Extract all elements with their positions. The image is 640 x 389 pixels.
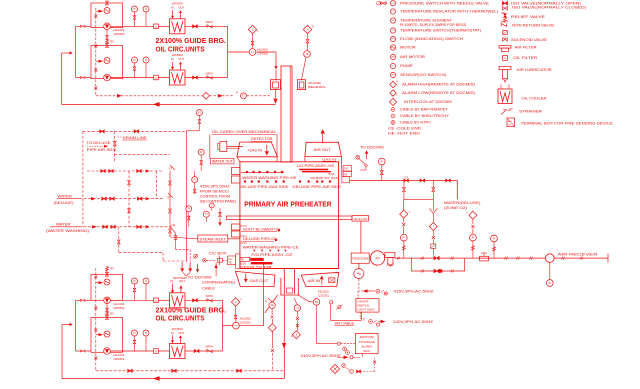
pump P-A [104, 23, 111, 30]
compensating cable line [215, 262, 217, 276]
wires to TS TI from pedestal [268, 298, 272, 302]
svg-text:OIL FILTER: OIL FILTER [513, 56, 538, 60]
PI instrument x199 upper [196, 110, 202, 116]
svg-text:PI: PI [188, 208, 191, 211]
svg-text:AIR RECEVER: AIR RECEVER [558, 251, 598, 256]
wire [158, 299, 169, 301]
svg-text:PRESSURE SWITCH WITH NEEDLE VA: PRESSURE SWITCH WITH NEEDLE VALVE [400, 1, 490, 5]
legend TEMPERATURE INDICATOR WITH THERMOWELL [390, 9, 395, 14]
cable from vessel circle [330, 301, 333, 304]
svg-text:WATER(DELUGE): WATER(DELUGE) [444, 201, 481, 205]
pump P-C [104, 297, 111, 304]
svg-text:CF008 TO 016: CF008 TO 016 [310, 176, 338, 180]
svg-text:F/G PIPE ASSY.-CE: F/G PIPE ASSY.-CE [251, 253, 293, 257]
air in aux box [329, 278, 335, 283]
PI instrument x188.8 [186, 206, 192, 212]
wire: discharge header lower [222, 300, 224, 351]
legend AIR MOTOR [390, 54, 395, 59]
preheater chimney column [281, 66, 292, 162]
svg-text:TI: TI [145, 332, 147, 335]
air header pipe [350, 180, 458, 182]
pressure indicator PI-B [132, 57, 138, 63]
non-return valve NRV-B [207, 76, 212, 79]
valves row1 [100, 130, 105, 133]
wire steam inlet to vessel [228, 238, 240, 240]
svg-text:ALARM HIGH(REMOTE AT DDCMIS): ALARM HIGH(REMOTE AT DDCMIS) [402, 83, 475, 87]
alarm diamond below TI [296, 324, 299, 327]
pipe after receiver [554, 257, 608, 259]
legend alarm high [390, 81, 396, 87]
svg-text:CABLE BY BAP-RANIPET: CABLE BY BAP-RANIPET [400, 108, 448, 112]
legend FLOW (INDICATING) SWITCH [390, 36, 395, 41]
oil filter F-A [154, 24, 159, 29]
pump P-B [104, 74, 111, 81]
svg-text:FLOW (INDICATING) SWITCH: FLOW (INDICATING) SWITCH [400, 37, 464, 41]
pipe valves right [505, 257, 506, 260]
alarm low diamond 2 [235, 307, 237, 316]
funnel vent [432, 199, 434, 211]
svg-text:OIL COOLER: OIL COOLER [522, 97, 548, 101]
TI bottom [294, 305, 300, 311]
return feed arrow upper [70, 51, 73, 54]
air out arrow [321, 129, 325, 133]
svg-text:CE -COLD END: CE -COLD END [388, 127, 422, 131]
svg-text:(WATER WASHING): (WATER WASHING) [46, 229, 89, 233]
dashed standby vertical lower [95, 268, 97, 371]
legend oil filter [503, 56, 508, 61]
air lubricator [385, 252, 395, 257]
dashed left main riser [82, 131, 84, 227]
RV between C and D [106, 300, 108, 317]
internal row lines [240, 225, 247, 227]
svg-text:GAS OUT: GAS OUT [250, 279, 269, 283]
main air pipe [395, 257, 546, 259]
CE bottom bars [240, 257, 250, 261]
FI instrument [192, 177, 198, 183]
svg-text:SOOT BLOWER-CE: SOOT BLOWER-CE [243, 227, 281, 231]
svg-text:ST: ST [405, 175, 409, 179]
legend needle valve glyph [381, 2, 385, 5]
svg-text:WATER OUT: WATER OUT [212, 160, 233, 164]
pump P-D [104, 348, 111, 355]
svg-text:TI: TI [145, 59, 147, 62]
dashed return line lower [96, 370, 284, 372]
svg-text:TO DELUGE: TO DELUGE [86, 141, 110, 145]
svg-text:DELUGE PIPE-GAS SIDE: DELUGE PIPE-GAS SIDE [240, 185, 290, 189]
duct-vessel connections [341, 157, 343, 177]
svg-text:TI: TI [205, 213, 207, 216]
bottom-left diamond cluster [330, 364, 339, 373]
oil unit 3 frame box (pump group C) [91, 274, 123, 300]
legend iso valve NO [502, 1, 507, 5]
vessel left stub flanges upper [231, 168, 240, 175]
svg-text:COMPENSATING: COMPENSATING [202, 280, 236, 284]
SL box [352, 216, 369, 222]
svg-text:F/G: F/G [344, 168, 348, 171]
svg-text:HR CABLE: HR CABLE [335, 322, 355, 326]
header drop to deluge label [456, 181, 458, 200]
oil cooler W-B [170, 70, 186, 85]
svg-text:NRV: NRV [206, 71, 214, 75]
wire: suction header upper [86, 25, 92, 27]
oil unit 2 frame box (pump group B) [91, 46, 123, 79]
legend interlock [389, 98, 396, 105]
svg-text:AP004: AP004 [114, 32, 125, 36]
svg-text:(ZONE O2): (ZONE O2) [444, 206, 467, 210]
svg-text:CF133 TO 138: CF133 TO 138 [240, 265, 272, 269]
svg-text:TB: TB [241, 259, 244, 262]
water washing pipe HE row [241, 172, 284, 174]
svg-text:H: H [312, 25, 314, 29]
thermostat TS bottom [269, 302, 275, 308]
return line arrow [153, 102, 160, 107]
svg-text:AP001: AP001 [114, 357, 125, 361]
svg-text:NRV: NRV [206, 344, 214, 348]
svg-text:NRV: NRV [501, 19, 509, 23]
PI2 instrument [198, 149, 204, 155]
guide bearing flange right [298, 80, 306, 90]
PI below receiver [549, 262, 551, 279]
pedestal [283, 269, 285, 295]
iso valve B [193, 76, 198, 79]
svg-text:AIR OUT: AIR OUT [314, 148, 332, 152]
right stub boxes on vessel [343, 166, 351, 171]
legend cable BHEL [391, 114, 395, 118]
svg-text:DETECTOR: DETECTOR [251, 137, 273, 141]
svg-text:PI: PI [133, 280, 136, 283]
PI drop right [491, 235, 498, 242]
wire [158, 77, 169, 79]
svg-text:WATER WASHING PIPE-HE: WATER WASHING PIPE-HE [242, 176, 297, 180]
svg-text:FI: FI [194, 178, 196, 181]
legend oil cooler [498, 89, 512, 104]
PI-D valve [134, 336, 136, 351]
oil filter F-B [154, 75, 159, 80]
drain loop verticals [209, 135, 211, 159]
svg-text:NRV: NRV [206, 20, 214, 24]
dashed vertical x118.8 + row 252.7 [118, 227, 120, 253]
PI-C valve [134, 284, 136, 300]
svg-text:AM: AM [375, 256, 380, 260]
iso valve C [185, 299, 223, 301]
wire [158, 350, 169, 352]
interlock diamond bottom [271, 319, 273, 324]
gas in flow arrow [265, 151, 269, 155]
svg-text:TEMPERATURE SWITCH(THERMOSTAT): TEMPERATURE SWITCH(THERMOSTAT) [400, 29, 481, 33]
svg-text:IN: IN [171, 331, 174, 335]
wire [185, 77, 228, 79]
svg-text:PI: PI [133, 8, 136, 11]
svg-text:HE -HOT END: HE -HOT END [388, 132, 421, 136]
wire: flange drop [275, 90, 277, 98]
svg-text:TEMPERATURE ELEMENT: TEMPERATURE ELEMENT [400, 19, 452, 23]
svg-text:PI: PI [381, 160, 384, 163]
svg-text:PI: PI [133, 332, 136, 335]
temperature indicator TI-B [143, 57, 149, 63]
water in/out arrows [180, 268, 184, 272]
valve TE chain [307, 34, 309, 40]
svg-text:TEMPERATURE INDICATOR WITH THE: TEMPERATURE INDICATOR WITH THERMOWELL [400, 10, 499, 14]
valve above FIS [252, 45, 254, 49]
return feed arrow lower [70, 323, 73, 326]
svg-text:SOLENOID VALVE: SOLENOID VALVE [511, 38, 548, 42]
svg-text:ALARM: ALARM [362, 344, 373, 348]
legend TEMPERATURE ELEMENT [390, 18, 395, 23]
svg-text:TI: TI [145, 8, 147, 11]
svg-text:LIGHT ASSY: LIGHT ASSY [357, 308, 374, 312]
svg-text:TB.: TB. [344, 173, 348, 176]
valve above FIS2 [235, 319, 237, 322]
svg-text:OUT: OUT [178, 6, 184, 10]
svg-text:OUT: OUT [178, 57, 184, 61]
NRV-D [207, 350, 212, 353]
oil cooler W-A [170, 19, 186, 34]
svg-text:DELUGE PIPE-AIR SIDE: DELUGE PIPE-AIR SIDE [293, 185, 342, 189]
svg-text:C/C: C/C [228, 258, 232, 261]
svg-text:TS: TS [242, 95, 245, 98]
oil unit 4 frame box (pump group D) [91, 318, 123, 353]
deluge row squares [244, 180, 246, 182]
oil filter F-C [154, 298, 159, 303]
header valves [404, 179, 409, 182]
svg-text:PIPE AIR SIDE: PIPE AIR SIDE [87, 148, 117, 152]
svg-text:CABLE: CABLE [202, 287, 216, 291]
wire [185, 25, 228, 27]
svg-text:GAS IN: GAS IN [248, 148, 262, 152]
diamond on dashed line [203, 92, 210, 99]
flow switch FIS HLD01 CF202 [249, 49, 256, 56]
valve on box4 top [106, 316, 109, 320]
svg-text:PI: PI [403, 237, 406, 240]
svg-text:TO DDCMIS: TO DDCMIS [188, 275, 212, 279]
wire: pump D discharge [110, 350, 153, 352]
svg-text:PI: PI [198, 111, 201, 114]
svg-text:OIL CIRC.UNITS: OIL CIRC.UNITS [156, 44, 205, 53]
svg-text:OIL CIRC.UNITS: OIL CIRC.UNITS [156, 314, 205, 323]
dashed overflow line to bearing [96, 95, 233, 97]
svg-text:OUT: OUT [179, 279, 185, 283]
svg-text:415V,3PH,AC,50HZ: 415V,3PH,AC,50HZ [394, 290, 434, 294]
motor M-D [104, 331, 110, 337]
wire TE to flange [302, 57, 307, 79]
PI-A needle valve [134, 12, 136, 26]
HE header bars [299, 169, 328, 171]
thermostat TS upper [241, 93, 247, 99]
svg-text:PI: PI [549, 282, 552, 285]
svg-text:ISO VALVE(NORMALLY CLOSED): ISO VALVE(NORMALLY CLOSED) [512, 5, 586, 9]
svg-text:CABLE BY NTPC: CABLE BY NTPC [400, 121, 432, 125]
svg-text:240V,3PH,AC,50HZ: 240V,3PH,AC,50HZ [301, 354, 341, 358]
svg-text:OIL CARRY OVER MECHANICAL: OIL CARRY OVER MECHANICAL [212, 130, 276, 134]
dashed row3 y198.7 (deluge) [79, 198, 163, 200]
air in duct [301, 272, 339, 286]
svg-text:SL01-06: SL01-06 [354, 217, 368, 221]
svg-text:TB.: TB. [228, 261, 232, 264]
svg-text:MOTOR: MOTOR [400, 46, 416, 50]
svg-text:H: H [265, 299, 267, 303]
svg-text:NON RETURN VALVE: NON RETURN VALVE [512, 24, 555, 28]
air receiver circle [546, 254, 555, 263]
oil filter F-D [154, 349, 159, 354]
legend cable BAP [391, 108, 395, 112]
legend air lubricator [499, 67, 511, 70]
sensor SS [313, 299, 320, 306]
svg-text:IN: IN [171, 6, 174, 10]
rotor bar [226, 216, 352, 220]
air filter on pipe [480, 256, 489, 261]
240V feed below on/off box [359, 312, 361, 319]
wire FIS2 up [239, 325, 263, 327]
svg-text:PI: PI [133, 59, 136, 62]
svg-text:AIR LUBRICATOR: AIR LUBRICATOR [517, 68, 553, 72]
svg-text:AP002: AP002 [114, 306, 125, 310]
oil unit 1 frame box (pump group A) [91, 3, 123, 28]
vessel body [240, 162, 339, 269]
to ddcmis arrow [196, 269, 199, 272]
dashed row2 y171 [87, 170, 163, 172]
legend cable NTPC [391, 121, 395, 125]
svg-text:PUMP: PUMP [400, 64, 414, 68]
detector device [220, 142, 227, 152]
chain B: interlock + solenoid [429, 223, 437, 231]
pressure indicator PI-D [132, 330, 138, 336]
bypass loop [410, 258, 412, 271]
svg-text:INTERLOCK AT DDCMIS: INTERLOCK AT DDCMIS [404, 100, 453, 104]
oil cooler W-D [170, 344, 186, 359]
legend alarm low [390, 90, 396, 96]
legend TEMPERATURE SWITCH(THERMOSTAT) [390, 28, 395, 33]
valve+arrow into vessel left [219, 213, 222, 217]
motor M-B [104, 58, 110, 64]
svg-text:WATER: WATER [56, 222, 71, 226]
svg-text:TE: TE [305, 53, 308, 56]
temperature indicator TI-A [143, 6, 149, 12]
REDUCER box [351, 253, 369, 263]
arrow to motor B [99, 60, 104, 63]
dashed vertical x156.5 [156, 171, 158, 199]
wires TI [205, 217, 207, 222]
temperature indicator TI-C [143, 278, 149, 284]
svg-text:H: H [291, 334, 293, 338]
support legs [265, 295, 278, 313]
legend SENSOR(GO SWITCH) [390, 72, 395, 77]
SS cable down [316, 305, 318, 343]
svg-text:ST: ST [167, 195, 171, 199]
svg-text:RELIEF VALVE: RELIEF VALVE [511, 15, 546, 19]
svg-text:FIS: FIS [251, 52, 255, 54]
svg-text:DELUGE PIPE-CE: DELUGE PIPE-CE [243, 237, 278, 241]
dashed row4 y226.8 (water washing) [79, 226, 172, 228]
pressure indicator PI-A [132, 6, 138, 12]
legend PUMP [390, 63, 395, 68]
alarm high diamond (TE chain) [303, 25, 311, 33]
svg-text:CF201: CF201 [240, 321, 251, 325]
alarm low diamond [252, 34, 254, 41]
return arrow lower [153, 376, 160, 381]
svg-text:TS: TS [271, 304, 274, 307]
dashed standby line vertical upper [95, 8, 97, 96]
svg-text:TO DDCMIS: TO DDCMIS [360, 145, 385, 149]
chain A: L diamond / PI [403, 199, 405, 210]
arrow to motor C [99, 281, 104, 284]
svg-text:IN: IN [171, 57, 174, 61]
relief valve RV (upper) [106, 30, 108, 46]
svg-text:AIR IN: AIR IN [308, 279, 321, 283]
TI instruments near vessel [209, 203, 214, 208]
svg-text:FIS: FIS [234, 325, 238, 327]
svg-text:(DELUGE): (DELUGE) [54, 201, 74, 205]
svg-text:CE: CE [172, 223, 176, 227]
svg-text:H: H [236, 90, 238, 94]
pressure indicator PI-C [132, 278, 138, 284]
legend MOTOR [390, 45, 395, 50]
svg-text:ALARM LOW(REMOTE AT DDCMIS): ALARM LOW(REMOTE AT DDCMIS) [402, 91, 475, 95]
valve on box1 top [106, 1, 109, 5]
oil cooler W-C [170, 293, 186, 308]
steam inlet box [198, 235, 228, 242]
svg-text:IN: IN [170, 279, 173, 283]
motor M-A [104, 8, 110, 14]
chain C: diamond PI right [469, 211, 477, 219]
iso valve D [185, 350, 223, 352]
PI on air header [378, 158, 385, 165]
svg-text:STRAINER: STRAINER [519, 109, 543, 113]
svg-text:DRAIN LINE: DRAIN LINE [123, 136, 147, 140]
union fitting B [80, 76, 82, 79]
MOTOR STOPPAGE ALARM BOX [355, 333, 378, 353]
svg-text:MOTOR: MOTOR [360, 335, 375, 339]
svg-text:AM: AM [392, 56, 395, 59]
drain drop valve [114, 131, 116, 162]
svg-text:SB.CONTROLPANEL: SB.CONTROLPANEL [200, 199, 237, 203]
temperature indicator TI-D [143, 330, 149, 336]
wire: pump B discharge [110, 77, 153, 79]
legend air filter [499, 46, 511, 49]
svg-text:Pt.100RTD, DUPLEX,3WIRE FOR BR: Pt.100RTD, DUPLEX,3WIRE FOR BRGS. [400, 23, 467, 27]
svg-text:AIR FILTER: AIR FILTER [515, 46, 538, 50]
guide bearing flange left [271, 80, 281, 90]
svg-text:WATER: WATER [58, 194, 73, 198]
union fitting A [80, 25, 82, 28]
svg-text:CABLE BY BHEL/TRICHY: CABLE BY BHEL/TRICHY [400, 114, 450, 118]
svg-text:C/C BOX: C/C BOX [209, 252, 228, 256]
wire: return riser upper [62, 52, 64, 54]
drops with valves [403, 181, 405, 200]
wire: pump C discharge [110, 299, 153, 301]
svg-text:PI: PI [200, 151, 203, 154]
iso valve A [193, 25, 198, 28]
svg-text:OUT: OUT [178, 331, 184, 335]
svg-text:AIR MOTOR: AIR MOTOR [400, 55, 426, 59]
vessel left stub flanges mid [231, 224, 240, 230]
svg-text:240V,3PH,AC,50HZ: 240V,3PH,AC,50HZ [393, 320, 433, 324]
vessel drain drop [283, 295, 285, 379]
wire: discharge header upper [227, 26, 229, 52]
wire [158, 25, 169, 27]
motor M-C [104, 279, 110, 285]
PI-B valve [134, 63, 136, 78]
gas in duct [237, 142, 278, 157]
non-return valve NRV-A [207, 25, 212, 28]
valve below TI bottom [296, 317, 299, 320]
dashed row at 154.7 [115, 154, 171, 156]
svg-text:SENSOR(GO SWITCH): SENSOR(GO SWITCH) [400, 73, 446, 77]
legend terminal box [507, 118, 515, 127]
svg-text:PI: PI [493, 237, 496, 240]
svg-text:STOPPAGE: STOPPAGE [359, 340, 375, 344]
wire: pump A discharge [110, 25, 153, 27]
svg-text:RV: RV [110, 40, 114, 44]
